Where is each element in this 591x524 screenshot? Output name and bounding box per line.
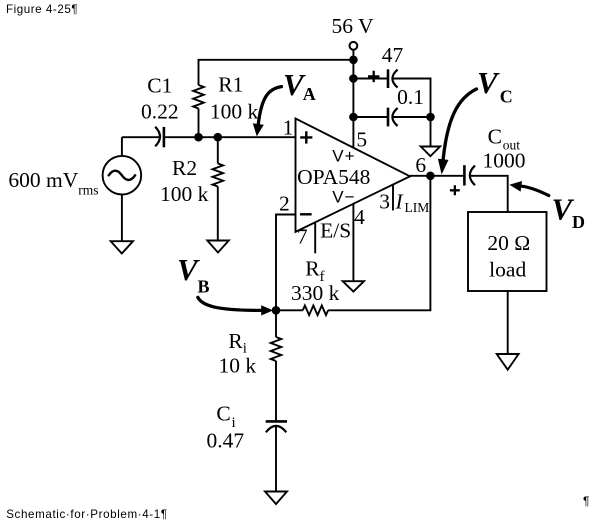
capacitor Cout straight plate — [463, 165, 466, 185]
svg-text:R1: R1 — [218, 72, 243, 96]
svg-text:47: 47 — [382, 43, 404, 67]
wire 56V rail down to pin 5 — [352, 50, 354, 148]
wire load bottom — [507, 291, 509, 354]
node dot 0.1 cap — [349, 113, 358, 122]
wire R2 top — [217, 137, 219, 163]
wire C1 to op-amp pin 1 — [164, 136, 296, 138]
svg-text:A: A — [303, 84, 316, 104]
svg-text:C: C — [216, 401, 230, 425]
svg-text:C1: C1 — [147, 73, 172, 97]
wire source top to input node — [121, 137, 123, 156]
svg-text:Figure 4-25¶: Figure 4-25¶ — [6, 3, 78, 16]
op-amp plus input symbol — [300, 131, 312, 143]
svg-text:600 mV: 600 mV — [8, 168, 78, 192]
arrow VD — [522, 186, 549, 195]
svg-text:56 V: 56 V — [331, 14, 373, 38]
56V terminal circle — [350, 42, 358, 50]
svg-text:0.1: 0.1 — [397, 85, 424, 109]
wire output pin 6 — [410, 175, 464, 177]
ground source — [111, 241, 133, 253]
wire pin 4 down — [352, 204, 354, 281]
svg-text:C: C — [500, 86, 513, 106]
wire Rf left to node B — [276, 309, 303, 311]
capacitor Ci curved plate — [266, 426, 286, 432]
resistor R1 — [193, 85, 204, 109]
arrow VC — [443, 89, 476, 159]
wire input horizontal to C1 — [122, 136, 161, 138]
wire Ri to Ci — [275, 361, 277, 421]
node dot 47 cap — [349, 74, 358, 83]
plus sign 47 cap — [368, 71, 379, 82]
capacitor C1 curved plate — [155, 127, 160, 147]
svg-text:20 Ω: 20 Ω — [487, 231, 530, 255]
svg-text:OPA548: OPA548 — [297, 165, 370, 189]
ground load — [497, 354, 519, 370]
ground Ci — [265, 492, 287, 505]
wire R2 bottom — [217, 187, 219, 241]
wire 0.1 cap right — [392, 116, 430, 118]
wire pin 7 E/S stub — [314, 222, 316, 253]
svg-text:100 k: 100 k — [160, 182, 209, 206]
arrow VB — [198, 297, 262, 310]
svg-text:Schematic·for·Problem·4-1¶: Schematic·for·Problem·4-1¶ — [6, 508, 168, 521]
AC source VS circle — [103, 156, 142, 195]
wire caps to ground — [430, 117, 432, 147]
wire R1 top to 56V rail — [199, 60, 354, 85]
svg-text:I: I — [395, 190, 404, 214]
op-amp U1 triangle — [296, 119, 411, 232]
svg-text:V: V — [477, 65, 500, 100]
AC source sine symbol — [109, 171, 135, 180]
ground pin 4 — [343, 281, 364, 291]
wire node 6 down to Rf — [328, 176, 430, 310]
node dot 6 — [426, 172, 435, 181]
svg-text:330 k: 330 k — [291, 281, 340, 305]
wire to 0.1 cap — [353, 116, 388, 118]
wire node B to Ri — [275, 310, 277, 337]
capacitor Ci straight plate — [266, 420, 287, 423]
svg-text:6: 6 — [415, 153, 426, 177]
capacitor 0.1 straight plate — [387, 108, 390, 127]
svg-text:D: D — [572, 212, 585, 232]
node dot caps right — [426, 113, 435, 122]
ground R2 — [207, 241, 229, 253]
svg-text:V+: V+ — [332, 146, 355, 165]
svg-text:LIM: LIM — [405, 200, 430, 215]
svg-text:¶: ¶ — [583, 494, 589, 508]
svg-text:5: 5 — [356, 128, 367, 152]
svg-text:B: B — [198, 276, 210, 296]
node dot R2 top — [214, 133, 223, 142]
capacitor 0.1 curved plate — [392, 108, 397, 126]
capacitor Cout curved plate — [470, 166, 475, 186]
resistor Ri — [271, 337, 282, 361]
wire source bottom — [121, 195, 123, 242]
svg-text:0.47: 0.47 — [206, 429, 244, 453]
op-amp minus input symbol — [300, 213, 312, 215]
wire 47 cap right and down — [392, 79, 430, 118]
wire op-amp pin 2 down to node B — [276, 215, 296, 311]
svg-text:10 k: 10 k — [218, 353, 256, 377]
svg-text:1000: 1000 — [483, 149, 526, 173]
svg-text:R: R — [305, 256, 320, 280]
node dot input A — [194, 133, 203, 142]
wire to 47 cap — [353, 78, 388, 80]
svg-text:4: 4 — [354, 205, 365, 229]
svg-text:R: R — [228, 329, 243, 353]
arrow VA — [258, 87, 281, 124]
load box — [468, 212, 547, 291]
svg-text:7: 7 — [297, 225, 308, 249]
svg-text:100 k: 100 k — [210, 99, 259, 123]
wire Ci to ground — [275, 426, 277, 492]
svg-text:3: 3 — [379, 190, 390, 214]
ground bypass caps — [421, 147, 440, 157]
svg-text:0.22: 0.22 — [141, 100, 179, 124]
svg-text:E/S: E/S — [320, 218, 351, 242]
wire R1 bottom — [198, 109, 200, 138]
svg-text:load: load — [489, 258, 526, 282]
svg-text:R2: R2 — [172, 156, 197, 180]
node dot B — [272, 306, 281, 315]
wire Cout to load — [470, 176, 508, 212]
svg-text:1: 1 — [283, 115, 294, 139]
capacitor C1 straight plate — [163, 127, 166, 147]
wire pin 3 ILIM stub — [392, 185, 394, 211]
capacitor 47 curved plate — [392, 70, 397, 88]
svg-text:V−: V− — [332, 187, 355, 206]
svg-text:rms: rms — [78, 182, 98, 197]
node dot 56V-R1 — [349, 56, 358, 65]
svg-text:2: 2 — [279, 192, 290, 216]
svg-text:C: C — [488, 124, 502, 148]
resistor R2 — [213, 164, 224, 187]
plus sign Cout — [450, 185, 460, 195]
capacitor 47 straight plate — [387, 69, 390, 88]
resistor Rf — [303, 306, 328, 316]
